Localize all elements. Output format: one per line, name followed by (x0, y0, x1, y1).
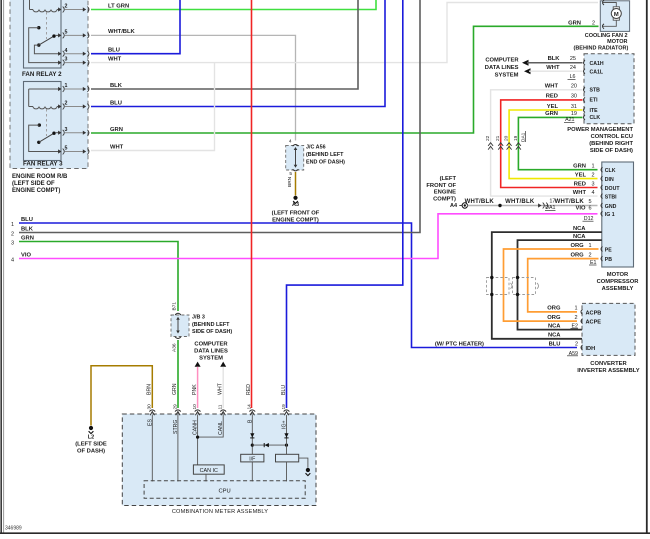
svg-text:BLK: BLK (548, 56, 561, 62)
svg-text:B71: B71 (171, 302, 177, 311)
svg-text:29: 29 (172, 404, 178, 410)
svg-text:(BEHIND LEFT: (BEHIND LEFT (192, 322, 230, 328)
svg-text:CLK: CLK (590, 115, 601, 121)
svg-text:DIN: DIN (605, 177, 614, 183)
wire BRN from J/C A56 to ground A3 (295, 172, 297, 196)
svg-text:30: 30 (571, 94, 577, 100)
svg-text:25: 25 (570, 56, 576, 62)
compressor pin IG 1 (601, 211, 603, 216)
svg-text:ENGINE: ENGINE (434, 190, 456, 196)
svg-text:ORG: ORG (570, 243, 584, 249)
svg-text:COMPRESSOR: COMPRESSOR (597, 279, 640, 285)
svg-text:PB: PB (605, 257, 612, 263)
shield (left pair) (487, 278, 510, 295)
svg-text:2: 2 (575, 341, 578, 347)
svg-text:WHT: WHT (110, 144, 124, 150)
svg-text:J/B 3: J/B 3 (192, 315, 205, 321)
wire RED from top to combination meter pin 14 (251, 0, 253, 408)
svg-text:(BEHIND RIGHT: (BEHIND RIGHT (589, 141, 633, 147)
svg-text:PNK: PNK (192, 384, 198, 395)
wire WHT/BLK from fan relay 2 pin 5 to J/C A56 (91, 35, 296, 140)
svg-text:LT GRN: LT GRN (108, 3, 129, 9)
border frame bottom (0, 532, 650, 534)
svg-text:14: 14 (247, 404, 253, 410)
connector DA1 (four wire pass-through) (488, 143, 493, 146)
svg-text:ACPB: ACPB (586, 310, 602, 316)
svg-text:BLK: BLK (110, 83, 123, 89)
svg-text:2: 2 (65, 101, 68, 107)
svg-text:ITE: ITE (590, 108, 599, 114)
svg-text:(W/ PTC HEATER): (W/ PTC HEATER) (435, 341, 484, 347)
wire WHT ECU STB pin 20 to compressor STBI (491, 90, 598, 196)
svg-text:COOLING FAN 2: COOLING FAN 2 (585, 33, 628, 39)
svg-text:GND: GND (605, 204, 617, 210)
relay FAN RELAY 3 pin 3 (58, 131, 61, 135)
wire WHT ECU CA1L pin 24 to data lines (524, 68, 531, 74)
svg-text:ORG: ORG (547, 315, 561, 321)
combination meter assembly box (122, 414, 316, 506)
svg-text:WHT: WHT (546, 65, 560, 71)
connector DA1 pin 17 on WHT/BLK (538, 203, 541, 207)
svg-text:24: 24 (570, 65, 576, 71)
compressor pin GND (601, 203, 603, 208)
node B junction (251, 444, 254, 447)
svg-text:IDH: IDH (586, 346, 596, 352)
relay FAN RELAY 2 contact (fixed, to pin 3) (37, 26, 40, 29)
border frame left (0, 0, 2, 534)
compressor pin DIN (601, 176, 603, 181)
diode D2 (IG+ line) (284, 433, 288, 437)
svg-text:A3: A3 (292, 202, 299, 208)
svg-text:RED: RED (546, 94, 558, 100)
svg-text:VIO: VIO (576, 206, 586, 212)
relay FAN RELAY 2 coil (29, 0, 31, 10)
relay FAN RELAY 2 common wire to pin 4 (34, 45, 59, 54)
svg-text:ORG: ORG (570, 253, 584, 259)
svg-text:ORG: ORG (547, 306, 561, 312)
svg-text:CONVERTER: CONVERTER (590, 361, 627, 367)
svg-text:GRN: GRN (172, 383, 178, 395)
wire GRN ECU CLK pin 19 to compressor CLK (518, 117, 597, 169)
wire YEL ECU ITE pin 31 to compressor DIN (509, 110, 597, 179)
svg-text:4: 4 (591, 190, 594, 196)
svg-text:YEL: YEL (575, 172, 587, 178)
shield junction nodes (490, 276, 493, 279)
svg-text:11: 11 (218, 404, 224, 409)
svg-text:ETI: ETI (590, 98, 599, 104)
relay FAN RELAY 3 pin 1 (58, 87, 61, 91)
svg-text:SIDE OF DASH): SIDE OF DASH) (590, 148, 633, 154)
I/F block (241, 454, 264, 462)
svg-text:20: 20 (504, 135, 510, 141)
svg-text:COMBINATION METER ASSEMBLY: COMBINATION METER ASSEMBLY (172, 509, 268, 515)
svg-text:4: 4 (65, 48, 68, 54)
svg-text:END OF DASH): END OF DASH) (306, 160, 345, 166)
meter internal wire ES to CPU (151, 415, 153, 481)
relay FAN RELAY 2 box (24, 0, 62, 68)
ground symbol A4 (bullseye) (459, 205, 462, 207)
relay FAN RELAY 2 pin 5 (58, 33, 61, 37)
meter internal wire CANL joins CANH (198, 415, 224, 437)
wire GRN from J/B 3 to meter STRG pin 29 (177, 340, 179, 408)
relay FAN RELAY 3 coil (28, 89, 30, 107)
svg-text:CLK: CLK (605, 168, 616, 174)
wire RED ECU ETI pin 30 to compressor DOUT (501, 100, 598, 188)
meter internal wire B (251, 415, 253, 454)
svg-text:19: 19 (513, 135, 519, 141)
svg-text:DATA LINES: DATA LINES (485, 65, 519, 71)
wire ORG compressor PB to converter ACPB (528, 259, 599, 312)
relay FAN RELAY 2 pin 4 (58, 52, 61, 56)
power management control ECU box (584, 54, 634, 124)
svg-text:3: 3 (65, 127, 68, 133)
svg-text:6: 6 (588, 206, 591, 212)
svg-text:M: M (614, 12, 619, 18)
svg-text:(LEFT SIDE: (LEFT SIDE (75, 442, 107, 448)
relay FAN RELAY 2 mechanical link (46, 12, 48, 39)
svg-text:(LEFT FRONT OF: (LEFT FRONT OF (272, 211, 320, 217)
svg-text:3: 3 (591, 181, 594, 187)
CAN IC (193, 465, 224, 474)
meter internal wire STRG to CPU (177, 415, 179, 481)
relay FAN RELAY 3 pin 2 (58, 104, 61, 108)
ground (meter internal) (306, 468, 310, 472)
wire NCA compressor (lower) (518, 240, 602, 330)
svg-text:(LEFT: (LEFT (440, 176, 457, 182)
ground A3 (293, 196, 297, 200)
svg-text:J/C A56: J/C A56 (306, 145, 326, 151)
shield (right pair) (513, 278, 536, 295)
svg-text:4: 4 (11, 258, 14, 264)
wire BRN from L2 ground to meter ES pin 30 (91, 366, 152, 426)
svg-text:NCA: NCA (573, 234, 586, 240)
svg-text:2: 2 (11, 232, 14, 238)
svg-text:COMPUTER: COMPUTER (485, 58, 519, 64)
diode D1 (B line) (250, 433, 254, 437)
svg-text:SIDE OF DASH): SIDE OF DASH) (192, 329, 232, 335)
svg-text:RED: RED (246, 384, 252, 395)
svg-text:STBI: STBI (605, 194, 617, 200)
svg-text:VIO: VIO (21, 252, 31, 258)
compressor pin CLK (601, 167, 603, 172)
svg-text:4: 4 (289, 139, 292, 145)
svg-text:BLU: BLU (21, 217, 33, 223)
svg-text:30: 30 (147, 404, 153, 410)
svg-text:2: 2 (588, 253, 591, 259)
svg-text:NCA: NCA (573, 226, 586, 232)
svg-text:STB: STB (590, 88, 601, 94)
compressor pin DOUT (601, 185, 603, 190)
svg-text:WHT/BLK: WHT/BLK (505, 199, 535, 205)
junction block J/B 3 box (171, 315, 189, 337)
svg-text:IG 1: IG 1 (605, 212, 615, 218)
relay FAN RELAY 3 mechanical link (46, 109, 48, 136)
svg-text:COMPT): COMPT) (433, 196, 456, 202)
junction block J/B 3 internal arrow (177, 319, 179, 333)
svg-text:3: 3 (11, 241, 14, 247)
node splice on WHT/BLK (498, 204, 501, 207)
svg-text:10: 10 (192, 404, 198, 410)
svg-text:INVERTER ASSEMBLY: INVERTER ASSEMBLY (577, 368, 640, 374)
svg-text:FAN RELAY 2: FAN RELAY 2 (22, 71, 62, 78)
meter internal ground branch (299, 458, 308, 468)
svg-text:WHT: WHT (108, 56, 122, 62)
svg-text:GRN: GRN (110, 127, 123, 133)
svg-text:ENGINE COMPT): ENGINE COMPT) (12, 188, 60, 194)
node CANH/CANL junction (196, 436, 199, 439)
svg-text:BRN: BRN (287, 176, 293, 187)
svg-text:WHT: WHT (545, 84, 559, 90)
svg-text:WHT: WHT (218, 382, 224, 395)
relay FAN RELAY 3 pin 1 bar (29, 88, 59, 90)
ground L2 (89, 426, 93, 430)
relay FAN RELAY 2 pin 3 (58, 61, 61, 65)
relay FAN RELAY 2 pin 2 (58, 7, 61, 11)
svg-text:BLU: BLU (108, 48, 120, 54)
svg-text:(LEFT SIDE OF: (LEFT SIDE OF (12, 181, 55, 187)
relay output stub wires and R/B border connectors (65, 9, 85, 11)
svg-text:BLU: BLU (110, 100, 122, 106)
svg-text:1: 1 (588, 243, 591, 249)
junction connector J/C A56 internal arrow (295, 150, 297, 167)
svg-text:BLU: BLU (549, 341, 561, 347)
svg-text:MOTOR: MOTOR (607, 272, 629, 278)
svg-text:SYSTEM: SYSTEM (199, 356, 223, 362)
wire WHT to meter CANL pin 11 (222, 367, 224, 408)
svg-text:22: 22 (485, 135, 491, 141)
svg-text:WHT/BLK: WHT/BLK (555, 199, 585, 205)
svg-text:POWER MANAGEMENT: POWER MANAGEMENT (567, 127, 633, 133)
svg-text:A36: A36 (171, 343, 177, 352)
svg-text:1: 1 (591, 164, 594, 170)
svg-text:A4: A4 (450, 203, 458, 209)
svg-text:DATA LINES: DATA LINES (194, 349, 228, 355)
svg-text:GRN: GRN (573, 164, 586, 170)
converter inverter assembly box (582, 303, 635, 355)
svg-text:YEL: YEL (547, 104, 559, 110)
svg-text:346989: 346989 (5, 526, 22, 532)
svg-text:GRN: GRN (545, 111, 558, 117)
wire BLK from fan relay 3 pin 1 (91, 0, 358, 89)
border frame right (646, 0, 648, 534)
svg-text:L2: L2 (88, 435, 94, 441)
motor compressor assembly box (602, 162, 634, 267)
svg-text:NCA: NCA (548, 323, 561, 329)
compressor pin STBI (601, 194, 603, 199)
svg-text:GRN: GRN (21, 235, 34, 241)
svg-text:1: 1 (574, 306, 577, 312)
cooling fan 2 motor box (600, 1, 629, 32)
svg-text:WHT/BLK: WHT/BLK (108, 29, 136, 35)
svg-text:RED: RED (574, 181, 586, 187)
svg-text:CPU: CPU (218, 488, 230, 494)
svg-text:MOTOR: MOTOR (607, 39, 627, 45)
regulator block (276, 454, 299, 462)
svg-text:CONTROL ECU: CONTROL ECU (591, 134, 633, 140)
svg-text:ASSEMBLY: ASSEMBLY (602, 286, 634, 292)
wire BLU from fan relay 2 pin 4 (91, 0, 180, 54)
svg-text:(BEHIND RADIATOR): (BEHIND RADIATOR) (574, 46, 629, 52)
arrow to computer data lines (CANH) (195, 362, 201, 367)
relay FAN RELAY 3 contact (fixed, to pin 5) (38, 123, 41, 126)
svg-text:PE: PE (605, 247, 612, 253)
svg-text:2: 2 (592, 21, 595, 27)
svg-text:CA1H: CA1H (590, 61, 604, 67)
wire NCA compressor (upper) (492, 232, 602, 339)
wire GRN from fan relay 3 pin 3 to cooling fan motor pin 2 (91, 26, 599, 133)
svg-text:SYSTEM: SYSTEM (495, 73, 519, 79)
svg-text:OF DASH): OF DASH) (77, 449, 105, 455)
svg-text:21: 21 (495, 135, 501, 141)
svg-text:5: 5 (289, 171, 292, 177)
node IG+ junction (285, 444, 288, 447)
meter internal wire CANH (197, 415, 199, 465)
CPU box (144, 481, 305, 498)
svg-text:ENGINE COMPT): ENGINE COMPT) (272, 218, 319, 224)
svg-text:ENGINE ROOM R/B: ENGINE ROOM R/B (12, 174, 68, 180)
wire BLK ECU CA1H pin 25 to data lines (522, 60, 529, 66)
svg-text:20: 20 (571, 84, 577, 90)
wire BLU IG+ from top to combination meter pin 19 (287, 0, 403, 408)
wire WHT from fan relay 2 pin 3 to cooling fan motor (91, 3, 598, 63)
relay FAN RELAY 3 box (24, 82, 62, 161)
wire WHT/BLK compressor GND pin 5 to A4 (468, 205, 598, 207)
svg-text:NCA: NCA (548, 333, 561, 339)
svg-text:DOUT: DOUT (605, 186, 621, 192)
svg-text:BRN: BRN (147, 384, 153, 395)
svg-text:FAN RELAY 3: FAN RELAY 3 (23, 161, 63, 168)
wire WHT from fan relay 3 pin 5 joining WHT above (91, 63, 215, 151)
svg-text:GRN: GRN (568, 21, 581, 27)
svg-text:5: 5 (65, 146, 68, 152)
wire BLU from fan relay 3 pin 2 (91, 0, 385, 107)
svg-text:I/F: I/F (249, 457, 255, 463)
svg-text:1: 1 (11, 222, 14, 228)
svg-text:1: 1 (65, 83, 68, 89)
svg-text:BLK: BLK (21, 226, 34, 232)
svg-text:5: 5 (588, 199, 591, 205)
wire ORG compressor PE to converter ACPE (504, 249, 599, 321)
wire PNK to meter CANH pin 10 (197, 367, 199, 408)
relay FAN RELAY 3 pin 5 (58, 149, 61, 153)
svg-text:2: 2 (65, 4, 68, 10)
svg-text:31: 31 (571, 104, 577, 110)
motor M symbol (613, 7, 619, 11)
svg-text:WHT: WHT (573, 190, 587, 196)
relay block: ENGINE ROOM R/B dashed box (10, 0, 88, 169)
svg-text:2: 2 (574, 315, 577, 321)
svg-text:19: 19 (281, 404, 287, 410)
svg-text:ACPE: ACPE (586, 320, 602, 326)
junction connector J/C A56 box (286, 145, 304, 170)
motor pin 1 (top, WHT) (602, 0, 604, 5)
svg-text:3: 3 (65, 57, 68, 63)
svg-text:CA1L: CA1L (590, 69, 604, 75)
meter internal wire IG+ (286, 415, 288, 454)
svg-text:CAN IC: CAN IC (200, 468, 218, 474)
relay FAN RELAY 3 movable contact arm (37, 141, 40, 144)
svg-text:WHT/BLK: WHT/BLK (465, 199, 495, 205)
arrow to computer data lines (CANL) (220, 362, 226, 367)
svg-text:2: 2 (591, 172, 594, 178)
relay FAN RELAY 2 movable contact arm (37, 43, 40, 46)
svg-text:(BEHIND LEFT: (BEHIND LEFT (306, 152, 344, 158)
svg-text:COMPUTER: COMPUTER (194, 342, 228, 348)
svg-text:5: 5 (65, 30, 68, 36)
diode D3 (crossfeed, points left) (252, 444, 286, 446)
svg-text:FRONT OF: FRONT OF (426, 183, 456, 189)
svg-text:BLU: BLU (281, 385, 287, 395)
wire LT GRN from fan relay 2 pin 2 (91, 0, 376, 10)
motor pin 2 (GRN) (603, 20, 616, 26)
